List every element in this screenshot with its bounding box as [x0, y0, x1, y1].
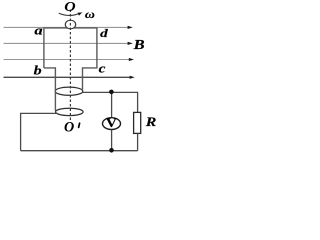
field line 1 — [4, 26, 133, 29]
svg-text:ω: ω — [85, 9, 95, 21]
bottom wire — [21, 150, 138, 152]
field line 2 — [4, 42, 133, 45]
svg-text:R: R — [144, 115, 156, 129]
svg-text:B: B — [132, 37, 144, 52]
svg-text:O: O — [64, 0, 75, 15]
voltmeter branch bottom — [111, 130, 113, 151]
circuit: wire ring to resistor top — [83, 92, 138, 112]
slip ring lower — [56, 108, 84, 115]
svg-text:b: b — [34, 63, 43, 78]
voltmeter branch top — [111, 92, 113, 118]
left wire — [21, 113, 58, 150]
coil wire b to lower ring — [44, 68, 56, 111]
voltmeter V — [103, 118, 121, 130]
field line 4 — [4, 76, 135, 79]
prime of O' — [79, 123, 80, 127]
junction dot bottom — [109, 148, 114, 153]
junction dot top — [109, 90, 114, 95]
slip ring upper — [55, 87, 83, 95]
pivot circle at O — [65, 20, 75, 29]
svg-text:V: V — [106, 116, 117, 130]
svg-text:d: d — [100, 28, 108, 40]
axis OO' dashed — [69, 10, 71, 123]
svg-text:O: O — [64, 120, 74, 136]
svg-text:c: c — [99, 61, 106, 75]
resistor R — [134, 112, 141, 133]
rotation arrow omega — [59, 13, 80, 15]
wire resistor bottom — [137, 133, 139, 150]
svg-text:a: a — [34, 24, 42, 38]
coil loop a-d-c side — [44, 28, 97, 90]
field line 3 — [4, 58, 135, 61]
